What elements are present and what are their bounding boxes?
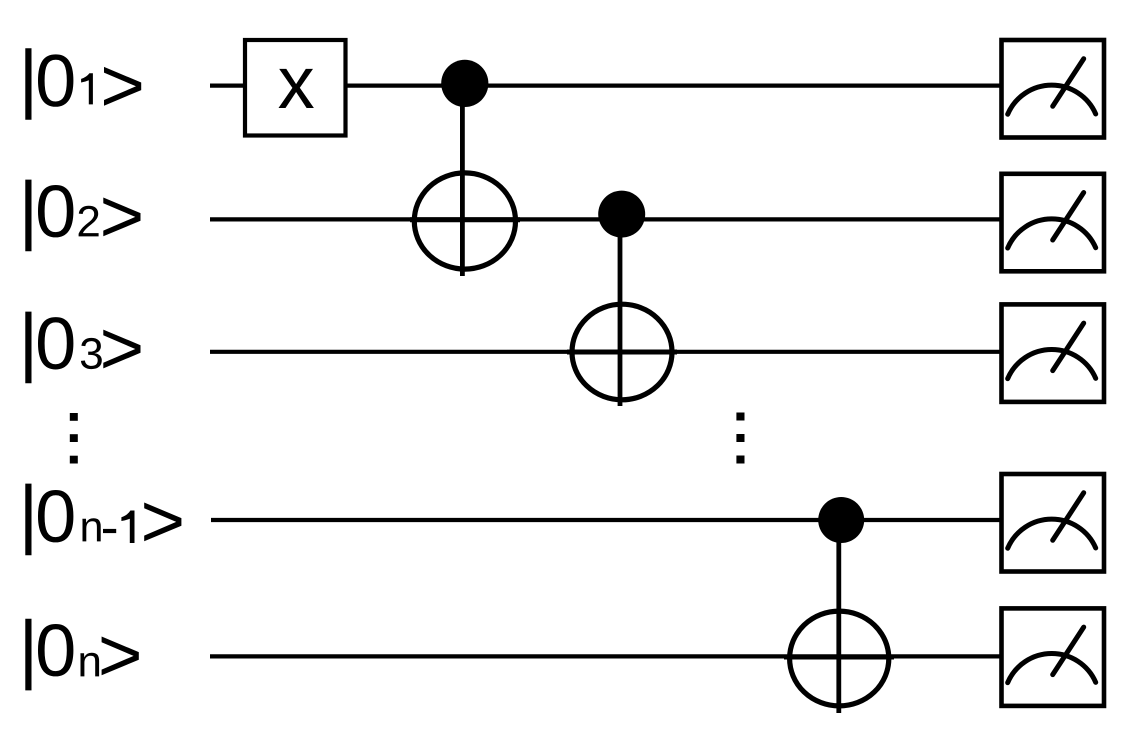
ket label |0_3>: [25, 312, 140, 384]
CNOT 1 target (q2): [414, 173, 515, 269]
wire q3: [210, 350, 1001, 354]
CNOT 2 control dot (q2): [598, 191, 645, 238]
ket label |0_n>: [25, 619, 139, 691]
CNOT 3 target crosshair horizontal: [784, 655, 894, 660]
X gate box: [245, 40, 346, 136]
wire q2: [210, 217, 1001, 221]
measurement box qn: [1002, 608, 1105, 706]
ket label |0_n-1>: [25, 484, 181, 556]
measurement box qn-1: [1002, 474, 1105, 572]
wire qn-1: [211, 518, 1001, 522]
CNOT 2 vertical wire: [618, 214, 623, 406]
CNOT 1 vertical wire: [460, 84, 465, 276]
vertical dots centre: [736, 413, 744, 464]
vertical dots left: [70, 413, 78, 464]
CNOT 3 control dot (qn-1): [818, 497, 864, 543]
measurement box q1: [1002, 40, 1105, 138]
wire q1: [210, 83, 1001, 87]
measurement box q2: [1002, 174, 1105, 271]
CNOT 3 target (qn): [790, 611, 889, 706]
ket label |0_1>: [25, 48, 141, 120]
CNOT 2 target (q3): [572, 304, 672, 400]
CNOT 1 target crosshair horizontal: [410, 217, 520, 222]
measurement box q3: [1002, 304, 1105, 402]
ket label |0_2>: [25, 180, 140, 252]
CNOT 2 target crosshair horizontal: [567, 350, 677, 355]
wire qn: [210, 654, 1001, 658]
CNOT 1 control dot (q1): [441, 60, 488, 107]
CNOT 3 vertical wire: [836, 520, 841, 713]
